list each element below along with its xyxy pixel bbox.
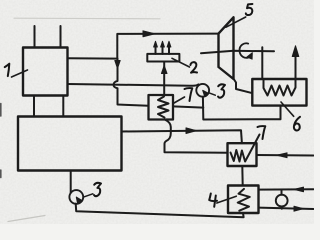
label 7b bbox=[258, 126, 266, 139]
condenser 6 bbox=[252, 79, 306, 106]
wire 4 right top inlet bbox=[259, 188, 314, 190]
meter circle at 4 bbox=[276, 195, 288, 207]
wire box1 right to riser y58 bbox=[68, 57, 118, 59]
wire riser x117 up and steam main to turbine bbox=[117, 34, 218, 59]
wire box1 bottom pipe right bbox=[62, 96, 64, 117]
arrow steam main right bbox=[143, 31, 155, 37]
wire big box to second heater arrowline y131 bbox=[122, 130, 242, 143]
tick to label 3 bbox=[209, 93, 216, 95]
pump 3 top circle bbox=[196, 84, 209, 97]
label 6 bbox=[294, 117, 300, 131]
wire extraction drop to heater 6 bbox=[261, 47, 263, 79]
tick to bottom label 3 bbox=[84, 194, 93, 197]
faint scan line top bbox=[14, 17, 160, 20]
arrow into U7b left-pointing bbox=[277, 153, 288, 158]
heater U7b bbox=[228, 143, 257, 166]
coil of U7a bbox=[158, 97, 169, 118]
label slash 4 bbox=[217, 196, 237, 203]
label 1 bbox=[5, 64, 10, 76]
cooler 4 bbox=[228, 186, 259, 214]
arrow y131 right bbox=[186, 128, 197, 134]
wire U7b right inlet bbox=[257, 154, 314, 157]
wire big box down to pump bbox=[70, 171, 72, 193]
spray tray 2 bbox=[147, 54, 179, 62]
arrow out of 4 right-pointing bbox=[294, 206, 304, 211]
label slash 2 bbox=[172, 58, 190, 67]
vent pipe up from 6 bbox=[295, 56, 297, 79]
wire box1 right to pump y84 bbox=[68, 84, 199, 86]
heater U7a bbox=[149, 95, 174, 120]
wire drop from junction with crossover hop bbox=[114, 59, 149, 106]
label 2 bbox=[190, 62, 197, 73]
label 7a bbox=[185, 88, 193, 101]
label slash 7a bbox=[174, 97, 185, 103]
wire pump3 down and right to 6 bottom bbox=[203, 97, 281, 120]
label slash 1 bbox=[12, 70, 28, 77]
arrow vent up bbox=[292, 46, 299, 57]
wire U7a right to pump tee bbox=[173, 106, 203, 107]
label slash 5 bbox=[226, 17, 246, 27]
wire 4 right bottom outlet bbox=[259, 208, 314, 209]
wire box1 bottom pipe left bbox=[33, 96, 35, 117]
label 3 bottom bbox=[94, 183, 101, 196]
furnace big box bbox=[18, 117, 122, 171]
pump 3 bottom circle bbox=[69, 190, 83, 204]
label 3 top bbox=[218, 84, 225, 97]
turbine exhaust to condenser 6 bbox=[234, 79, 253, 93]
arrow up into tray bbox=[161, 66, 167, 74]
curved rotation arrow at turbine bbox=[239, 43, 248, 58]
wire U7a up to tray 2 bbox=[163, 62, 165, 96]
wire box1 top pipe left bbox=[34, 26, 36, 48]
wire U7b down to 4 bbox=[241, 166, 243, 186]
arrow into 4 left-pointing bbox=[294, 187, 304, 192]
label slash 6 bbox=[281, 102, 294, 116]
steam line through turbine y52 bbox=[201, 51, 274, 53]
turbine 5 bbox=[219, 17, 234, 79]
scan marks bbox=[0, 104, 2, 117]
label 5 bbox=[246, 4, 253, 15]
boiler unit 1 bbox=[23, 48, 68, 96]
drain S-pipe from U7a down bbox=[165, 120, 228, 153]
wire box1 top pipe right bbox=[60, 26, 62, 48]
tray arrows up bbox=[155, 47, 157, 54]
coil of 4 bbox=[238, 189, 250, 211]
coil of U7b with pointer stroke bbox=[231, 135, 260, 162]
coil of 6 bbox=[264, 79, 296, 96]
arrow down at junction bbox=[115, 61, 120, 69]
wire bottom return line bbox=[76, 204, 244, 218]
label 4 bbox=[209, 194, 217, 207]
arrows above tray bbox=[154, 41, 158, 47]
